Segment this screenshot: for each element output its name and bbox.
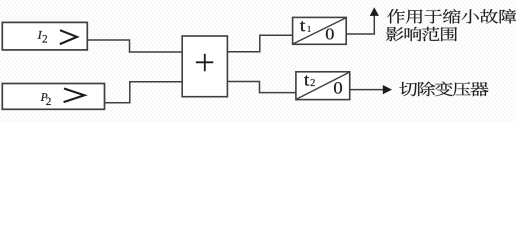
- timer T1 box: [293, 17, 347, 44]
- greater-than symbol in I2 box: [60, 30, 77, 44]
- label P2: [41, 93, 48, 100]
- label I2: [38, 31, 43, 39]
- arrowhead right: [383, 85, 392, 94]
- timer T2 box: [296, 72, 350, 100]
- wire T2 output to right arrow: [350, 89, 383, 91]
- label 0 in T2: [334, 82, 342, 94]
- greater-than symbol in P2 box: [64, 89, 85, 103]
- label t2: [304, 75, 309, 85]
- comparator P2 box: [2, 84, 104, 110]
- wire T1 output to up arrow: [346, 15, 374, 34]
- wire I2 output to OR gate input: [87, 40, 182, 52]
- annotation: act to reduce fault impact range (line 1): [387, 9, 405, 23]
- wire P2 output to OR gate input: [105, 82, 183, 103]
- annotation: line 2: [386, 27, 404, 41]
- annotation: cut off transformer: [399, 82, 417, 96]
- wire OR gate to timer T1: [227, 35, 292, 52]
- arrowhead up: [370, 7, 379, 16]
- wire OR gate to timer T2: [227, 82, 296, 93]
- label t1: [300, 21, 305, 31]
- label 0 in T1: [326, 29, 334, 40]
- OR gate box U1: [182, 36, 227, 97]
- plus symbol in OR gate: [196, 61, 214, 63]
- timer T1 diagonal: [293, 18, 346, 44]
- comparator I2 box: [2, 22, 87, 50]
- timer T2 diagonal: [296, 72, 349, 99]
